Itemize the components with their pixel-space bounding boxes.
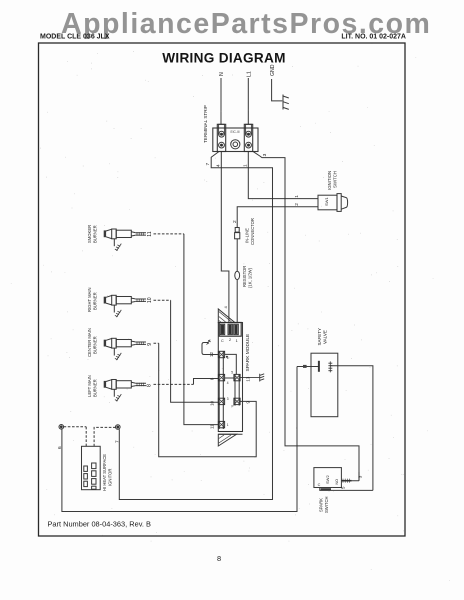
- terminal strip TB1: [213, 124, 258, 151]
- svg-text:11: 11: [147, 231, 153, 236]
- safety valve right lead: [330, 366, 373, 491]
- svg-text:CONNECTOR: CONNECTOR: [250, 218, 255, 245]
- center main burner label: [87, 328, 98, 357]
- svg-text:C: C: [318, 483, 321, 487]
- svg-text:WIRING DIAGRAM: WIRING DIAGRAM: [162, 51, 286, 66]
- svg-text:3: 3: [357, 475, 362, 478]
- svg-text:9: 9: [147, 343, 153, 346]
- svg-text:1: 1: [294, 195, 300, 198]
- wire 4: strip N to spark module: [221, 152, 229, 323]
- module terminal 13: [234, 374, 240, 380]
- smoker burner igniter: [105, 229, 146, 251]
- svg-text:2: 2: [232, 220, 238, 223]
- svg-text:SAFETY: SAFETY: [317, 328, 322, 346]
- smoker burner label: [87, 225, 98, 243]
- svg-text:BURNER: BURNER: [93, 292, 98, 310]
- svg-text:2: 2: [229, 338, 231, 342]
- hot surface ignitor label: [102, 454, 113, 491]
- svg-text:1: 1: [227, 423, 229, 427]
- svg-text:SMOKER: SMOKER: [87, 225, 92, 243]
- svg-text:4: 4: [216, 164, 222, 167]
- svg-text:5: 5: [231, 371, 233, 375]
- spark module pin labels C 2 1: [221, 338, 238, 343]
- svg-text:IGNITION: IGNITION: [327, 171, 332, 190]
- center main burner igniter: [105, 338, 146, 360]
- module terminal 10: [218, 398, 224, 404]
- ignition switch SW1: [318, 194, 348, 212]
- spark switch NO lead: [341, 472, 359, 481]
- module internal wiring: [225, 354, 237, 378]
- ground chassis symbol: [283, 95, 289, 110]
- spark switch SW2: [314, 468, 342, 488]
- svg-text:L1: L1: [246, 71, 252, 77]
- spark module U1: [218, 309, 242, 446]
- spark switch C lead: [320, 488, 373, 491]
- resistor label: [242, 266, 252, 288]
- safety valve label: [317, 328, 328, 346]
- wire 9: center main burner to module: [159, 343, 257, 457]
- resistor 1K 1/2W: [235, 271, 240, 279]
- svg-text:SW1: SW1: [324, 197, 329, 206]
- svg-text:SWITCH: SWITCH: [324, 496, 329, 513]
- svg-text:LEFT MAIN: LEFT MAIN: [87, 375, 92, 397]
- svg-text:(1K, 1/2W): (1K, 1/2W): [247, 267, 252, 288]
- svg-text:RIGHT MAIN: RIGHT MAIN: [87, 287, 92, 312]
- ignition switch label: [327, 171, 338, 190]
- svg-text:1: 1: [243, 164, 249, 167]
- module terminal 12: [218, 351, 224, 357]
- module left terminal rail: [219, 352, 223, 430]
- svg-text:8: 8: [147, 384, 153, 387]
- module internal pin digits: [227, 356, 234, 427]
- svg-text:SPARK: SPARK: [318, 498, 323, 512]
- svg-text:LIT. NO. 01 02-027A: LIT. NO. 01 02-027A: [341, 34, 406, 41]
- wire 7: strip to HSI right: [119, 152, 272, 500]
- in-line connector label: [245, 218, 255, 245]
- svg-text:3: 3: [262, 153, 268, 156]
- svg-text:7: 7: [115, 440, 121, 443]
- svg-text:MODEL CLE 036 JLX: MODEL CLE 036 JLX: [40, 34, 110, 41]
- svg-text:SW2: SW2: [325, 475, 330, 484]
- safety valve: [311, 353, 338, 417]
- svg-text:GND: GND: [270, 64, 276, 76]
- svg-text:8: 8: [217, 554, 221, 563]
- svg-text:BURNER: BURNER: [93, 336, 98, 354]
- svg-text:2: 2: [294, 203, 300, 206]
- svg-text:RESISTOR: RESISTOR: [242, 266, 247, 287]
- sense electrode at pin 12: [202, 343, 218, 355]
- svg-text:13: 13: [245, 376, 250, 381]
- svg-text:SPARK MODULE: SPARK MODULE: [245, 334, 251, 372]
- wire 8: left main burner to module: [194, 379, 219, 385]
- svg-text:10: 10: [147, 297, 153, 303]
- wire 1: strip L1 to ignition switch: [248, 152, 318, 199]
- diagram border frame: [39, 43, 406, 536]
- wire 6: HSI to safety valve: [62, 367, 297, 512]
- wire GND lead: [272, 79, 283, 101]
- svg-text:6: 6: [227, 356, 229, 360]
- svg-text:10: 10: [210, 400, 215, 405]
- wire N supply: [220, 78, 222, 125]
- wire 3: strip to spark switch NO: [253, 152, 359, 481]
- safety valve left lead: [297, 366, 319, 368]
- module terminal 11: [218, 421, 224, 427]
- right main burner igniter: [105, 295, 146, 317]
- svg-text:N: N: [219, 72, 225, 76]
- svg-text:VALVE: VALVE: [323, 330, 328, 344]
- svg-text:Part Number 08-04-363, Rev. B: Part Number 08-04-363, Rev. B: [48, 520, 151, 529]
- wire 2: ignition switch to resistor chain: [237, 207, 318, 323]
- hot surface ignitor wires: [64, 427, 87, 447]
- module terminal 9: [234, 398, 240, 404]
- svg-text:BURNER: BURNER: [93, 379, 98, 397]
- svg-text:NO: NO: [335, 479, 339, 485]
- svg-text:CENTER MAIN: CENTER MAIN: [87, 328, 92, 357]
- wire 11: smoker burner to module: [184, 234, 219, 425]
- svg-text:BURNER: BURNER: [93, 225, 98, 243]
- svg-text:7: 7: [205, 163, 211, 166]
- svg-text:SWITCH: SWITCH: [333, 171, 338, 188]
- svg-text:1: 1: [236, 339, 238, 343]
- svg-text:6: 6: [57, 446, 63, 449]
- spark switch label: [318, 496, 329, 513]
- left main burner igniter: [105, 380, 146, 402]
- wire L1 supply: [247, 78, 249, 125]
- svg-text:HI HEAT SURFACE: HI HEAT SURFACE: [102, 454, 107, 491]
- svg-text:EIC-III: EIC-III: [230, 130, 239, 134]
- hot surface ignitor terminals: [59, 425, 64, 430]
- svg-text:IN-LINE: IN-LINE: [245, 228, 250, 243]
- svg-text:4: 4: [227, 381, 229, 385]
- svg-text:TERMINAL STRIP: TERMINAL STRIP: [203, 105, 208, 143]
- right main burner label: [87, 287, 98, 312]
- svg-text:3: 3: [227, 397, 229, 401]
- module terminal 8: [218, 374, 224, 380]
- wire 10: right main burner to module: [171, 300, 219, 402]
- left main burner label: [87, 375, 98, 397]
- svg-text:IGNITOR: IGNITOR: [108, 469, 113, 486]
- in-line connector: [235, 228, 239, 233]
- svg-text:C: C: [221, 339, 224, 343]
- hot surface ignitor body: [82, 446, 101, 489]
- svg-text:P: P: [232, 405, 234, 409]
- module inner terminal rail: [235, 374, 239, 405]
- electrode at pin 13: [240, 374, 264, 382]
